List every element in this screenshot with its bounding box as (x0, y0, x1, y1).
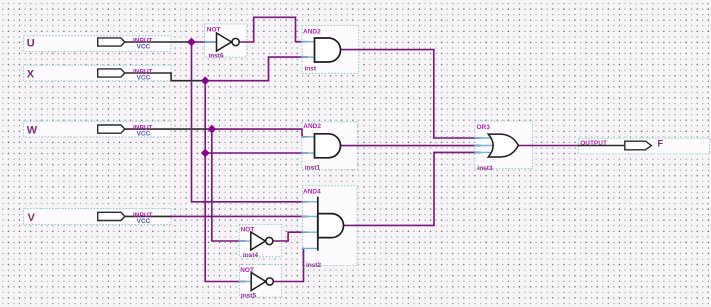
AND4 inst2 pin2 stub (302, 215, 317, 217)
input pin U selection box (24, 36, 171, 52)
OR3 inst3 pin3 stub (475, 151, 492, 153)
svg-text:inst6: inst6 (208, 53, 224, 60)
wire U pin stub (black) (125, 41, 192, 43)
AND4 inst2 pin4 stub (302, 247, 317, 249)
svg-text:inst4: inst4 (243, 252, 259, 259)
wire NOT inst4 output to AND4 pin3 (273, 232, 307, 241)
svg-text:inst2: inst2 (306, 262, 322, 269)
input pin X symbol (98, 69, 125, 77)
NOT gate inst4 (251, 232, 266, 250)
OR3 gate inst3 selection box (475, 121, 532, 169)
junction node on X jog (201, 76, 210, 85)
OR3 inst3 pin1 stub (475, 137, 492, 139)
svg-text:OR3: OR3 (477, 124, 491, 131)
svg-text:inst3: inst3 (477, 165, 493, 172)
AND2 gate inst1 (315, 134, 341, 158)
wire AND2 inst output to OR3 pin1 (341, 50, 481, 138)
AND4 inst2 pin1 stub (302, 201, 317, 203)
OR3 gate inst3 (488, 134, 518, 157)
wire NOT inst6 output over the top to AND2 inst pin1 (240, 17, 308, 42)
AND4 gate inst2 selection box (302, 186, 357, 266)
NOT inst5 bubble (266, 278, 273, 285)
NOT gate inst6 (217, 33, 232, 51)
NOT gate inst5 (251, 273, 266, 291)
svg-text:V: V (28, 212, 36, 224)
svg-text:U: U (27, 38, 35, 50)
svg-text:inst: inst (305, 65, 317, 72)
svg-text:NOT: NOT (207, 27, 221, 34)
AND2 inst1 pin2 stub (302, 152, 315, 154)
svg-text:VCC: VCC (137, 131, 151, 138)
NOT inst6 input stub (205, 41, 217, 43)
svg-text:inst5: inst5 (241, 292, 257, 299)
wire W pin stub (black) (125, 128, 212, 130)
svg-text:X: X (27, 69, 35, 81)
wire AND4 inst2 output to OR3 pin3 (344, 152, 481, 225)
AND2 gate inst1 selection box (302, 122, 357, 170)
NOT inst5 input stub (239, 281, 251, 283)
svg-text:AND4: AND4 (303, 189, 321, 196)
svg-text:F: F (658, 139, 664, 149)
svg-text:inst1: inst1 (305, 165, 321, 172)
NOT inst6 bubble (232, 38, 239, 45)
svg-text:VCC: VCC (137, 74, 151, 81)
wire output pin stub (black) (579, 145, 625, 147)
svg-text:VCC: VCC (137, 218, 151, 225)
wire AND2 inst1 output to OR3 pin2 (341, 145, 481, 147)
input pin X selection box (24, 65, 171, 81)
AND2 gate inst (315, 38, 341, 62)
svg-text:VCC: VCC (137, 43, 151, 50)
svg-text:NOT: NOT (241, 227, 255, 234)
junction node on W wire (208, 125, 217, 134)
output pin F symbol (625, 141, 652, 150)
wire net X vertical bus down to NOT inst5 input (205, 81, 245, 282)
NOT gate inst4 selection box (239, 225, 281, 257)
wire net V to AND4 pin2 (172, 215, 308, 217)
input pin W symbol (98, 125, 125, 133)
wire V pin stub (black) (125, 215, 172, 217)
NOT inst4 bubble (266, 237, 273, 244)
wire X pin stub with jog down (black) (125, 73, 205, 81)
NOT gate inst5 selection box (239, 265, 281, 297)
NOT gate inst6 selection box (205, 24, 247, 57)
wire net X branch to AND2 inst1 pin2 (205, 152, 307, 154)
wire net U vertical bus down to AND4 pin1 (192, 42, 308, 202)
svg-text:NOT: NOT (240, 267, 254, 274)
wire NOT inst5 output to AND4 pin4 (274, 248, 304, 281)
output pin F selection box (579, 138, 710, 154)
AND2 inst1 pin1 stub (302, 136, 315, 138)
svg-text:AND2: AND2 (303, 123, 321, 130)
wire net X from junction to AND2 inst pin2 (jog up) (205, 57, 307, 81)
input pin W selection box (24, 121, 171, 137)
input pin V selection box (24, 209, 171, 225)
svg-text:W: W (27, 125, 38, 137)
wire net W to AND2 inst1 pin1 (jog down) (212, 129, 307, 137)
AND2 gate inst selection box (302, 26, 359, 74)
svg-text:OUTPUT: OUTPUT (580, 140, 607, 147)
AND4 gate inst2 body (318, 214, 344, 238)
AND2 inst pin1 stub (302, 41, 315, 43)
junction node on X bus at AND2 inst1 branch (201, 149, 210, 158)
wire net W vertical bus down to NOT inst4 input (212, 129, 245, 241)
input pin V symbol (98, 212, 125, 220)
junction node on U wire (187, 38, 196, 47)
input pin U symbol (98, 38, 125, 46)
AND2 inst pin2 stub (302, 56, 315, 58)
svg-text:AND2: AND2 (303, 29, 321, 36)
AND4 inst2 pin3 stub (302, 231, 317, 233)
NOT inst4 input stub (239, 240, 251, 242)
wire net U to NOT inst6 input (192, 41, 217, 43)
OR3 inst3 pin2 stub (475, 145, 494, 147)
wire OR3 output to output pin (518, 145, 578, 147)
AND4 inst2 input bar (317, 198, 319, 250)
